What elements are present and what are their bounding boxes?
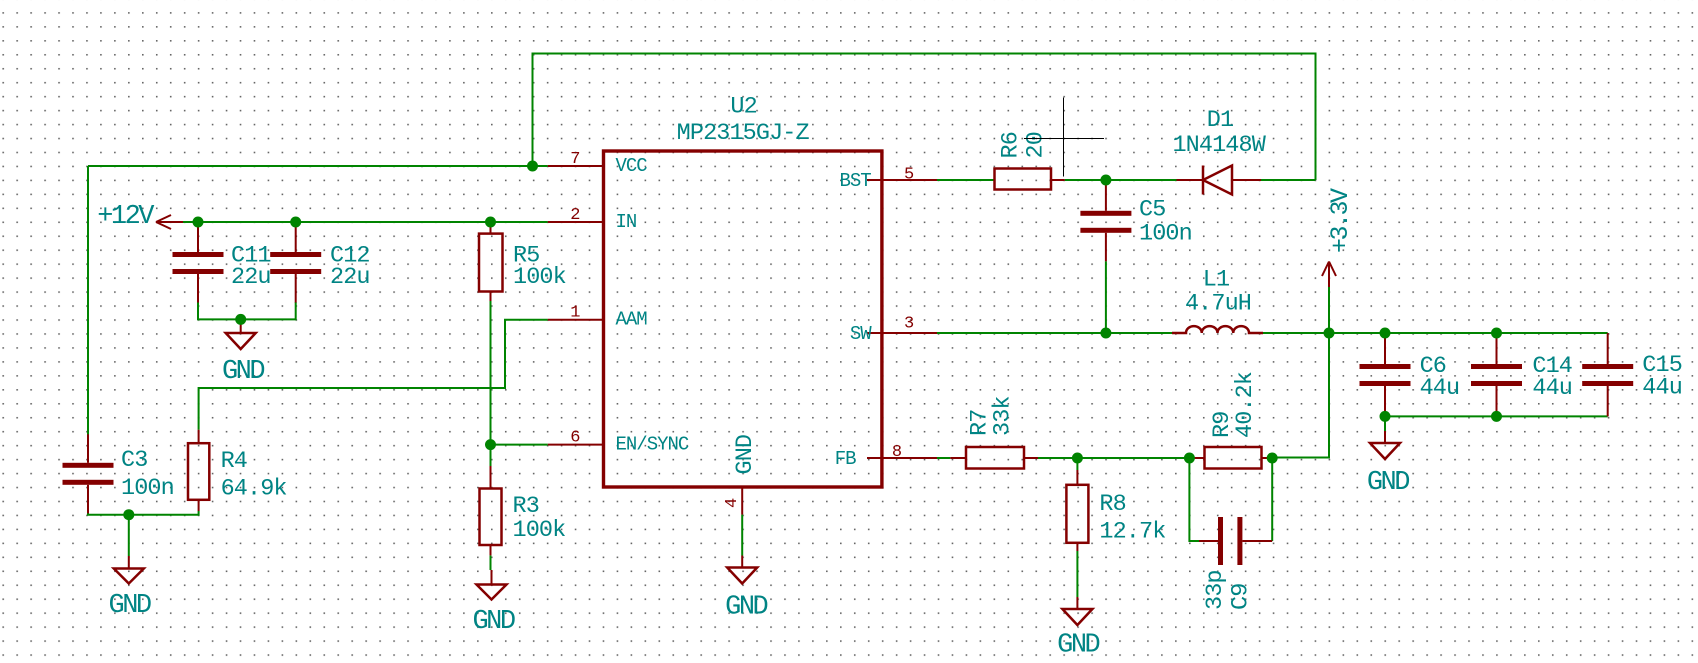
wire FB pin8 to R7	[925, 457, 950, 459]
svg-text:VCC: VCC	[616, 155, 648, 177]
svg-text:R6: R6	[997, 132, 1024, 158]
svg-text:GND: GND	[1057, 631, 1099, 661]
pin 3 SW stub	[867, 332, 937, 334]
wire C5 junction to D1	[1106, 179, 1177, 181]
ground under C11 C12	[226, 321, 256, 349]
svg-text:100k: 100k	[513, 517, 566, 544]
svg-text:+12V: +12V	[97, 202, 155, 232]
wire C3 R4 bottom rail	[88, 511, 199, 515]
wire EN junction to pin 6	[491, 444, 548, 446]
pin 7 VCC stub	[548, 165, 602, 167]
junction node pin7 VCC	[527, 161, 538, 172]
wire EN junction down to R3	[490, 445, 492, 466]
svg-text:FB: FB	[835, 448, 856, 470]
svg-text:44u: 44u	[1642, 375, 1682, 402]
capacitor C5	[1080, 180, 1131, 261]
wire +12V IN rail to pin 2	[171, 221, 548, 223]
wire BST pin5 to R6	[937, 179, 995, 181]
wire AAM pin 1 run to R4	[199, 320, 548, 430]
wire GND drop under C3 rail	[128, 515, 130, 556]
pin 5 BST stub	[867, 179, 937, 181]
wire C5 vertical to SW rail	[1105, 261, 1107, 333]
inductor L1	[1172, 326, 1263, 333]
junction node BST C5	[1100, 175, 1111, 186]
wire R8 bottom to GND	[1076, 551, 1078, 597]
svg-text:1N4148W: 1N4148W	[1172, 132, 1266, 159]
svg-text:40.2k: 40.2k	[1232, 372, 1259, 438]
svg-text:C3: C3	[121, 447, 147, 474]
wire SW rail pin3 to L1	[937, 332, 1172, 334]
cursor crosshair	[1024, 98, 1104, 177]
wire VCC rail to pin 7	[88, 165, 548, 167]
svg-text:44u: 44u	[1532, 375, 1572, 402]
svg-text:+3.3V: +3.3V	[1326, 188, 1355, 253]
resistor R8	[1066, 470, 1088, 551]
svg-text:GND: GND	[222, 357, 264, 387]
svg-text:4.7uH: 4.7uH	[1185, 291, 1251, 318]
wire GND drop under C6	[1384, 416, 1386, 431]
ground under R3	[477, 570, 507, 600]
svg-text:64.9k: 64.9k	[221, 475, 287, 502]
svg-text:100k: 100k	[513, 264, 566, 291]
svg-text:EN/SYNC: EN/SYNC	[616, 434, 689, 456]
svg-text:IN: IN	[616, 211, 637, 233]
svg-text:GND: GND	[725, 593, 767, 623]
pin 2 IN stub	[548, 221, 602, 223]
svg-text:100n: 100n	[121, 475, 174, 502]
svg-text:SW: SW	[850, 323, 872, 345]
junction node C6 bottom	[1380, 411, 1391, 422]
junction node C14 top	[1491, 328, 1502, 339]
wire output bottom rail	[1385, 415, 1608, 417]
junction node C11 top	[193, 217, 204, 228]
svg-text:U2: U2	[730, 94, 756, 121]
ground under R8	[1062, 597, 1092, 625]
resistor R9	[1189, 447, 1272, 469]
svg-text:MP2315GJ-Z: MP2315GJ-Z	[677, 120, 810, 147]
svg-text:C9: C9	[1227, 584, 1254, 610]
pin 8 FB stub	[867, 457, 937, 459]
resistor R7	[950, 447, 1038, 469]
svg-text:1: 1	[570, 304, 580, 323]
svg-text:33k: 33k	[990, 396, 1017, 436]
ground under pin 4	[727, 556, 757, 584]
diode D1 1N4148W	[1177, 166, 1262, 195]
svg-text:BST: BST	[839, 170, 871, 192]
svg-text:22u: 22u	[231, 264, 271, 291]
capacitor C12	[270, 222, 321, 303]
svg-text:100n: 100n	[1139, 221, 1192, 248]
power symbol +3.3V arrow	[1322, 262, 1336, 288]
wire C9 left branch	[1189, 458, 1199, 541]
capacitor C6	[1360, 333, 1411, 416]
pin 1 AAM stub	[548, 319, 602, 321]
wire feedback tap from R9 right up to output rail	[1272, 333, 1329, 458]
wire R6 to C5 junction	[1065, 179, 1106, 181]
svg-text:2: 2	[570, 206, 579, 225]
capacitor C15	[1582, 333, 1633, 416]
wire R8 top stub	[1076, 458, 1078, 470]
resistor R6	[995, 169, 1065, 190]
svg-text:6: 6	[570, 429, 580, 448]
resistor R4	[188, 430, 209, 511]
capacitor C14	[1471, 333, 1522, 416]
svg-text:R8: R8	[1099, 491, 1125, 518]
svg-text:20: 20	[1022, 132, 1049, 158]
svg-text:D1: D1	[1207, 107, 1233, 134]
svg-text:GND: GND	[1367, 468, 1409, 498]
svg-text:GND: GND	[472, 607, 514, 637]
junction node GND drop C11 C12	[235, 314, 246, 325]
wire R5 bottom to EN junction	[490, 301, 492, 445]
junction node +3.3V tap	[1324, 328, 1335, 339]
svg-text:GND: GND	[109, 591, 151, 621]
svg-text:R4: R4	[221, 448, 247, 475]
wire D1 to top loop corner	[1261, 179, 1316, 181]
resistor R5	[479, 222, 503, 301]
capacitor C9 rotated	[1199, 517, 1272, 565]
junction node C6 top	[1380, 328, 1391, 339]
junction node R9 right	[1267, 453, 1278, 464]
wire VCC top loop from pin7 junction to D1 right	[533, 54, 1316, 181]
svg-text:AAM: AAM	[616, 309, 648, 331]
svg-text:5: 5	[904, 166, 914, 185]
wire L1 to output rail end	[1263, 332, 1608, 334]
capacitor C3	[63, 434, 114, 513]
junction node EN R3	[485, 439, 496, 450]
svg-text:7: 7	[570, 150, 579, 169]
wire +3.3V stub	[1328, 287, 1330, 333]
IC U2 MP2315GJ-Z body	[604, 151, 882, 487]
capacitor C11	[173, 222, 224, 303]
svg-text:33p: 33p	[1202, 570, 1229, 610]
svg-text:44u: 44u	[1420, 375, 1460, 402]
wire R7 to R9 left junction	[1038, 457, 1189, 459]
svg-text:R3: R3	[513, 493, 539, 520]
wire left vertical drop to C3	[87, 166, 89, 435]
wire C11 C12 bottom rail	[198, 302, 296, 319]
pin 4 GND stub	[741, 489, 743, 515]
junction node R5 top	[485, 217, 496, 228]
ground under C3 R4 rail	[114, 556, 144, 584]
junction node R7 R8	[1072, 453, 1083, 464]
wire R3 bottom to GND	[490, 555, 492, 570]
svg-text:8: 8	[892, 443, 902, 462]
wire C9 right branch	[1271, 458, 1273, 541]
junction node C5 SW	[1100, 328, 1111, 339]
ground under C6	[1370, 431, 1400, 459]
pin 6 EN/SYNC stub	[548, 444, 602, 446]
junction node C3 R4 rail	[123, 509, 134, 520]
svg-text:22u: 22u	[330, 264, 370, 291]
junction node C12 top	[290, 217, 301, 228]
resistor R3	[480, 466, 502, 555]
power symbol +12V arrow	[156, 215, 183, 229]
svg-text:3: 3	[904, 314, 914, 333]
svg-text:GND: GND	[732, 435, 759, 475]
junction node C14 bottom	[1491, 411, 1502, 422]
svg-text:12.7k: 12.7k	[1099, 519, 1165, 546]
wire pin4 down	[741, 515, 743, 556]
junction node R9 left	[1184, 453, 1195, 464]
svg-text:4: 4	[723, 498, 742, 508]
